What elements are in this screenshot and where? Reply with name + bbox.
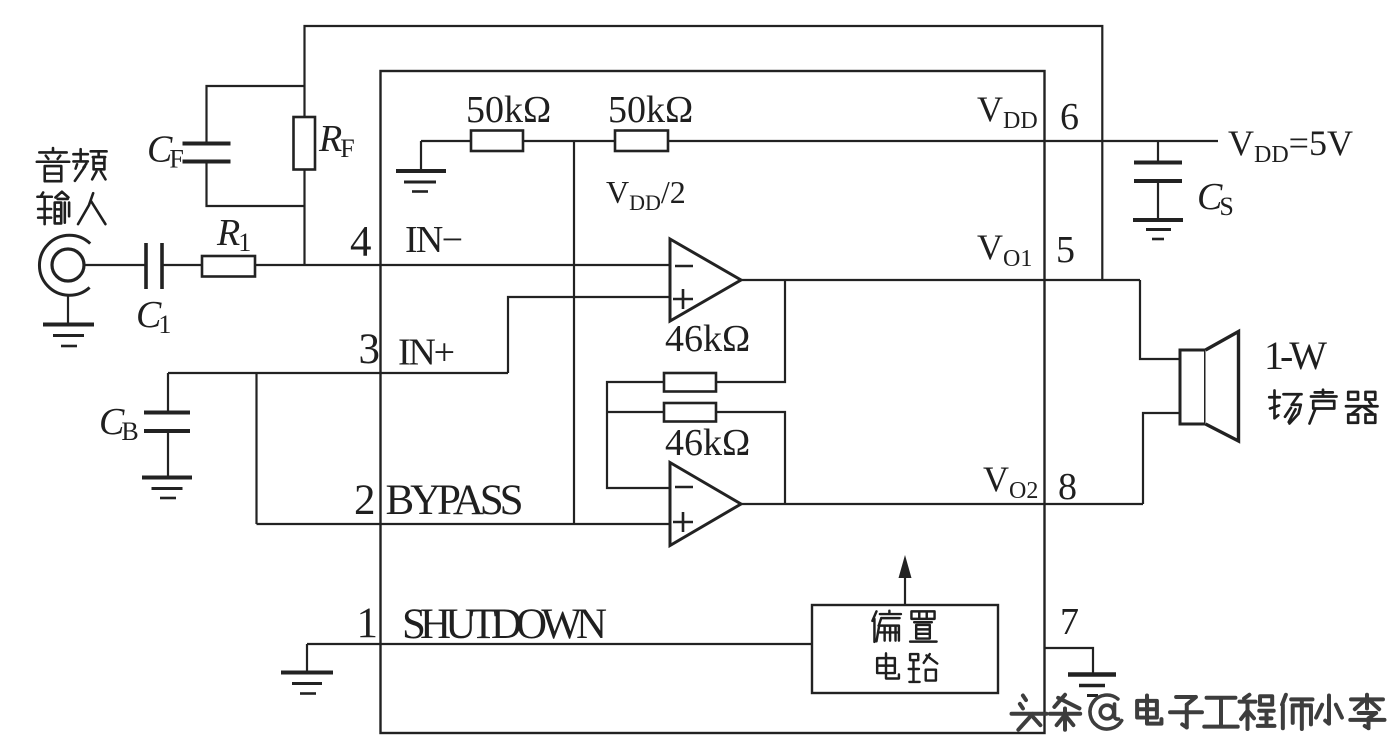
svg-text:8: 8 (1058, 466, 1077, 508)
wire speaker bottom lead (1143, 413, 1180, 504)
wire C1 through R1 to IN- pin 4 (162, 264, 670, 266)
svg-text:50kΩ: 50kΩ (608, 89, 693, 131)
capacitor CF (183, 86, 305, 206)
svg-text:1-W: 1-W (1264, 333, 1327, 378)
resistor 46k #1 (664, 373, 716, 392)
capacitor CS (1134, 141, 1182, 219)
svg-text:1: 1 (357, 600, 379, 647)
resistor RF (294, 117, 316, 170)
svg-text:46kΩ: 46kΩ (665, 318, 750, 360)
ground (CS) (1133, 220, 1183, 239)
svg-text:IN+: IN+ (398, 332, 455, 374)
svg-text:VDD=5V: VDD=5V (1228, 123, 1353, 168)
label 输入 input (37, 192, 69, 224)
ground (shutdown) (281, 644, 333, 694)
wire 46k #2 right lead to op2 output (716, 412, 785, 504)
wire feedback op1 output to 46k #1 (716, 280, 785, 382)
svg-text:50kΩ: 50kΩ (466, 89, 551, 131)
label 偏置 bias (872, 611, 901, 642)
arrow bias output (899, 555, 912, 605)
wire audio input to C1 (84, 264, 146, 266)
wire 46k #2 left lead (607, 411, 664, 413)
resistor R1 (202, 256, 255, 277)
wire VDD/2 node vertical (573, 141, 575, 524)
svg-text:SHUTDOWN: SHUTDOWN (402, 601, 607, 648)
svg-text:4: 4 (350, 219, 372, 266)
resistor 46k #2 (664, 403, 716, 422)
capacitor CB (144, 373, 190, 477)
svg-text:7: 7 (1060, 601, 1079, 643)
svg-text:6: 6 (1060, 96, 1079, 138)
wire 46k common node to op-amp2 minus input (607, 382, 670, 488)
op-amp U1B (670, 463, 741, 546)
watermark 电子工程师小李 (1137, 696, 1161, 724)
pin 7 stub (1045, 648, 1094, 673)
svg-text:2: 2 (354, 477, 376, 524)
speaker LS1 (1180, 332, 1239, 442)
label 音频 audio (37, 148, 69, 181)
wire feedback top loop VO1 to IN- (305, 26, 1103, 280)
svg-text:IN−: IN− (405, 219, 463, 261)
wire VO1 row (741, 279, 1140, 281)
resistor 50k #1 (471, 131, 523, 152)
wire VO2 row (741, 503, 1143, 505)
label 扬声器 speaker (1269, 391, 1301, 424)
svg-text:3: 3 (359, 326, 381, 373)
svg-text:BYPASS: BYPASS (386, 477, 524, 524)
watermark 头条 (1012, 696, 1047, 730)
capacitor C1 (146, 243, 162, 289)
IC box (381, 71, 1045, 733)
wire bypass branch vertical (255, 373, 257, 524)
ground (CB) (142, 478, 192, 499)
ground (pin 7) (1068, 675, 1116, 696)
watermark @ (1090, 695, 1122, 729)
wire pin3 row (168, 372, 508, 374)
wire IN+ to op-amp1 plus input (508, 297, 670, 373)
bias circuit box (812, 605, 998, 693)
wire VDD row with 50k resistors (421, 140, 1218, 142)
wire pin1 SHUTDOWN row (307, 643, 812, 645)
wire pin2 BYPASS row to op-amp2 plus input (257, 523, 671, 525)
ground (50k divider) (396, 141, 446, 192)
ground (audio input) (43, 295, 94, 346)
op-amp U1A (670, 239, 741, 321)
svg-text:46kΩ: 46kΩ (665, 422, 750, 464)
svg-text:5: 5 (1056, 229, 1075, 271)
wire speaker top lead (1140, 280, 1180, 359)
resistor 50k #2 (615, 131, 668, 152)
label 电路 circuit (877, 653, 899, 678)
audio input connector J1 (39, 235, 90, 295)
